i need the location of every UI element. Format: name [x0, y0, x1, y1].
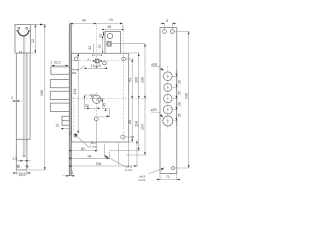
- case screw hole BR: [121, 135, 125, 139]
- svg-text:12: 12: [55, 124, 59, 128]
- svg-text:86: 86: [128, 120, 132, 124]
- ext lines below case: [105, 142, 119, 166]
- front view: deadbolt pin 2: [50, 91, 69, 99]
- svg-text:1: 1: [72, 171, 74, 175]
- svg-text:26: 26: [178, 113, 182, 117]
- strike plate outline: [160, 28, 177, 174]
- svg-text:8: 8: [166, 19, 168, 23]
- svg-text:91: 91: [128, 78, 132, 82]
- left view: latch head box: [15, 25, 30, 54]
- svg-text:45: 45: [103, 103, 107, 107]
- follower centerline dashed: [72, 59, 131, 61]
- dim 32 tab top: [88, 44, 94, 54]
- plate top screw hole left: [163, 30, 167, 34]
- front view: latch bolt: [51, 67, 69, 74]
- projection line from tab square: [111, 43, 145, 45]
- svg-text:240: 240: [184, 93, 188, 99]
- tab dim 28: [102, 25, 123, 30]
- bottom dim 63: [69, 121, 98, 152]
- tick on extension line: [40, 24, 44, 26]
- left view: faceplate strip: [15, 53, 30, 170]
- svg-text:32: 32: [31, 39, 35, 43]
- svg-text:18,5: 18,5: [19, 173, 26, 177]
- svg-text:28: 28: [107, 25, 111, 29]
- left view: latch stem: [23, 36, 25, 156]
- left view: stem width dim 1,5: [12, 157, 31, 162]
- faceplate hole (front): [69, 133, 71, 135]
- svg-text:196: 196: [40, 90, 44, 96]
- label d5,2 2 holes: [74, 134, 98, 149]
- left view: screw hole right: [26, 27, 28, 29]
- svg-text:26: 26: [178, 80, 182, 84]
- plate bottom dim 71: [157, 174, 181, 180]
- svg-text:136: 136: [141, 77, 145, 83]
- case screw hole TL: [74, 57, 78, 61]
- tab square hole: [107, 41, 111, 46]
- left view: case bottom line: [16, 138, 30, 140]
- plate hole 2: [164, 83, 172, 91]
- plate chain dim: [173, 70, 182, 126]
- BR hole tick: [125, 136, 134, 138]
- svg-text:2 отв.: 2 отв.: [90, 145, 98, 149]
- follower vertical centerline: [96, 25, 98, 71]
- left view: plate bottom edge: [16, 169, 27, 171]
- label d4,2 2 holes: [105, 155, 134, 172]
- case screw hole BL: [74, 134, 77, 137]
- keyhole ext line: [84, 95, 91, 108]
- svg-text:19: 19: [91, 64, 95, 68]
- svg-text:32: 32: [88, 46, 92, 50]
- lock case outline: [72, 53, 129, 142]
- plate overall dim 240: [175, 32, 190, 169]
- left view: overall dim 196: [28, 25, 46, 171]
- svg-text:63: 63: [81, 147, 85, 151]
- svg-text:32: 32: [97, 45, 101, 49]
- follower dim 19 19: [85, 64, 107, 69]
- right chain line A: [125, 59, 134, 142]
- top dim 19: [97, 18, 123, 28]
- svg-text:28: 28: [85, 104, 89, 108]
- svg-text:26: 26: [178, 91, 182, 95]
- left view: case side line: [29, 53, 31, 139]
- plate top dim 8: [161, 19, 177, 29]
- svg-text:5: 5: [88, 58, 90, 62]
- right holes centerline: [122, 26, 124, 140]
- left view: screw hole left: [18, 27, 20, 29]
- faceplate hole centerline: [73, 97, 75, 132]
- svg-text:136: 136: [95, 162, 101, 166]
- left view: dim 32 (latch box height): [31, 25, 37, 54]
- auxiliary latch: [55, 116, 71, 129]
- svg-text:19: 19: [109, 18, 113, 22]
- svg-text:71: 71: [166, 175, 170, 179]
- front view: deadbolt pin 1: [50, 79, 69, 87]
- keyhole: [91, 95, 101, 103]
- plate hole 4: [163, 105, 172, 114]
- svg-text:⌀18: ⌀18: [151, 62, 157, 66]
- svg-text:4 отв.: 4 отв.: [138, 178, 146, 182]
- bottom dim 136: [69, 140, 138, 167]
- keyhole vertical centerline: [96, 92, 98, 119]
- svg-text:⌀29: ⌀29: [151, 108, 157, 112]
- left view: dim 18,5: [12, 171, 31, 177]
- right chain line C: [126, 44, 146, 155]
- case mid screw hole: [94, 117, 98, 121]
- tab dim 12: [99, 32, 105, 38]
- left view: thickness dim 2: [11, 96, 21, 102]
- left view: latch arc: [18, 31, 28, 36]
- keyhole dim 28: [84, 104, 99, 109]
- front view: faceplate strip: [69, 25, 71, 176]
- dim 151 case vertical: [73, 53, 79, 133]
- svg-text:49: 49: [82, 18, 86, 22]
- front view: deadbolt pin 3: [50, 103, 69, 111]
- left view: bottom screw hole left: [17, 165, 19, 167]
- left view: bottom screw hole right: [26, 165, 28, 167]
- top dim 49: [69, 18, 96, 24]
- follower square: [92, 54, 102, 63]
- svg-text:М4: М4: [72, 71, 77, 75]
- label d4,5 4 holes: [138, 168, 164, 183]
- svg-text:26: 26: [178, 102, 182, 106]
- svg-text:12: 12: [99, 34, 103, 38]
- svg-text:1,5: 1,5: [12, 157, 17, 161]
- label d18: [151, 62, 164, 70]
- svg-text:106: 106: [134, 77, 138, 83]
- tab dim 32: [97, 36, 103, 53]
- note 4 holes M4: [72, 58, 90, 75]
- label d29: [151, 108, 163, 117]
- svg-text:11: 11: [19, 50, 23, 54]
- cylinder fix screw hole: [103, 61, 107, 65]
- dim 45 keyhole to hole: [90, 99, 109, 118]
- front view: bolt throw dim 32,2: [52, 60, 69, 66]
- svg-text:2: 2: [11, 96, 13, 100]
- left view: dim 11: [19, 50, 23, 54]
- case screw hole TR: [122, 57, 126, 61]
- front view: faceplate strip fill: [69, 25, 72, 176]
- svg-text:32,2: 32,2: [54, 60, 61, 64]
- right chain line B: [110, 53, 141, 158]
- plate hole 1: [163, 72, 172, 81]
- plate hole 5: [163, 116, 173, 126]
- tab rod hole: [107, 34, 112, 39]
- bottom dim 94: [69, 155, 110, 160]
- plate hole 3: [164, 94, 172, 102]
- svg-text:2 отв.: 2 отв.: [125, 168, 133, 172]
- case top tab: [105, 32, 121, 54]
- svg-text:19: 19: [97, 64, 101, 68]
- svg-text:134: 134: [141, 124, 145, 130]
- svg-text:94: 94: [88, 155, 92, 159]
- svg-text:118: 118: [134, 121, 138, 127]
- svg-text:151: 151: [73, 89, 77, 95]
- plate bottom screw hole: [172, 167, 175, 170]
- faceplate offset dim 1: [63, 171, 75, 177]
- plate holes centerline: [167, 66, 169, 130]
- plate top screw hole right: [171, 30, 175, 34]
- keyhole centerline horizontal: [72, 98, 147, 100]
